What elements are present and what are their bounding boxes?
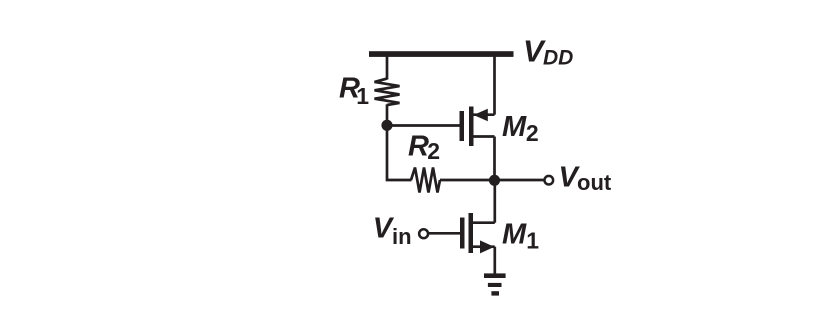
wire M1 drain up to output node — [493, 180, 496, 223]
transistor M1 (NMOS) gate bar — [460, 218, 465, 249]
node A junction dot — [381, 120, 392, 131]
terminal Vout open circle — [545, 176, 554, 185]
resistor R1 — [375, 79, 400, 105]
wire R2 right end to output node — [440, 179, 495, 182]
wire output node to Vout terminal — [495, 179, 545, 182]
wire M2 drain down to output node — [493, 137, 496, 181]
transistor M1 drain lead — [473, 221, 495, 224]
wire M1 source down to ground — [493, 247, 496, 274]
transistor M2 source lead with arrow to channel — [474, 113, 495, 116]
transistor M1 source arrow (points right away from channel) — [480, 240, 494, 253]
wire VDD rail to R1 top — [386, 54, 389, 80]
wire node A to M2 gate — [387, 124, 460, 127]
ground symbol bar 2 — [488, 283, 502, 287]
wire R1 bottom to node A — [386, 104, 389, 126]
transistor M1 source lead — [473, 245, 495, 248]
svg-text:DD: DD — [543, 46, 573, 69]
svg-text:M: M — [502, 218, 527, 250]
transistor M2 drain lead — [474, 135, 495, 138]
svg-text:in: in — [392, 224, 412, 249]
transistor M2 (PMOS) gate bar — [460, 111, 465, 141]
svg-text:out: out — [577, 170, 612, 195]
transistor M2 channel bar — [469, 107, 474, 147]
svg-text:2: 2 — [526, 120, 539, 146]
transistor M2 source arrow (points left into channel) — [474, 109, 488, 122]
wire M2 source up to VDD rail — [493, 54, 496, 115]
svg-text:M: M — [502, 111, 527, 143]
ground symbol bar 3 — [491, 291, 499, 295]
svg-text:1: 1 — [526, 228, 539, 254]
svg-text:2: 2 — [427, 138, 440, 164]
node Vout junction dot — [489, 175, 500, 186]
power rail VDD — [369, 51, 514, 57]
terminal Vin open circle — [419, 229, 428, 238]
wire node A down and to R2 left end — [387, 125, 412, 180]
wire Vin terminal to M1 gate — [428, 232, 460, 235]
transistor M1 channel bar — [469, 213, 474, 253]
resistor R2 — [411, 168, 440, 193]
ground symbol bar 1 — [484, 273, 506, 278]
svg-text:R: R — [408, 130, 429, 162]
svg-text:1: 1 — [356, 83, 369, 109]
